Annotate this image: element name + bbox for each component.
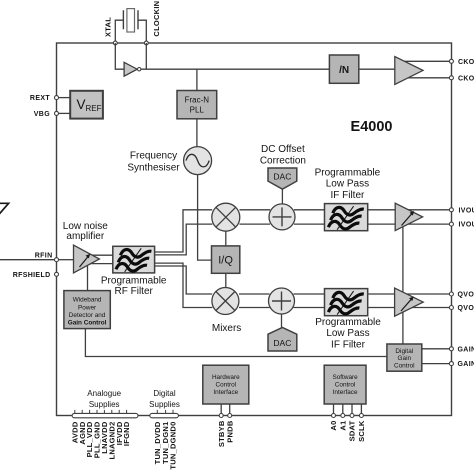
pin QVOUT (449, 292, 474, 299)
svg-text:IVOUT: IVOUT (459, 207, 474, 214)
pin GAIN1 (449, 346, 474, 353)
summer 2 (269, 288, 295, 314)
svg-text:CKOUTB: CKOUTB (458, 75, 474, 82)
wire /N to clock buffer (359, 68, 396, 70)
wire CKOUT upper (402, 60, 450, 62)
svg-text:IF Filter: IF Filter (331, 339, 366, 350)
svg-text:IVOUTB: IVOUTB (459, 222, 474, 229)
pin SCLK (357, 414, 366, 442)
svg-text:REXT: REXT (30, 95, 50, 102)
pin RFSHIELD (13, 272, 59, 279)
wire SCLK stub (360, 404, 362, 414)
svg-text:Supplies: Supplies (149, 400, 180, 409)
digital supply ticks (157, 410, 173, 414)
svg-text:Gain: Gain (398, 355, 412, 362)
svg-text:QVOUTB: QVOUTB (458, 305, 474, 312)
svg-text:PNDB: PNDB (225, 420, 234, 443)
node XTAL junction (113, 41, 117, 45)
wire SDAT stub (351, 404, 353, 414)
wire PLL to synthesiser (196, 119, 198, 147)
pin A1 (338, 414, 347, 431)
svg-text:Digital: Digital (395, 348, 413, 355)
svg-text:Software: Software (332, 374, 358, 381)
wire LNA to RF filter pair (90, 255, 113, 263)
wire clock branch to Frac-N PLL (196, 69, 198, 90)
svg-text:Frequency: Frequency (130, 151, 177, 162)
pin CKOUT (449, 59, 474, 66)
wire RFIN to LNA (59, 259, 74, 261)
wire CKOUT lower (402, 77, 450, 79)
wire A0 stub (333, 404, 335, 414)
wire clock net to /N (141, 68, 330, 70)
wire REXT (57, 97, 71, 99)
svg-text:E4000: E4000 (351, 119, 393, 135)
label DC Offset Correction (260, 144, 306, 166)
RF filter block (113, 246, 155, 273)
analogue supplies connector bracket (72, 413, 138, 417)
wire VBG (57, 112, 71, 114)
wire LNA to detector (87, 266, 89, 291)
wire IF filter2 to amp2 pair (368, 294, 396, 308)
wire summer2 to DAC2 (281, 314, 283, 327)
inverter U1 (124, 62, 141, 76)
wire PNDB stub (229, 404, 231, 414)
svg-text:Low Pass: Low Pass (326, 179, 369, 190)
svg-text:Programmable: Programmable (315, 167, 381, 178)
mixer 2 (212, 288, 239, 315)
pin CKOUTB (449, 75, 474, 82)
svg-text:Power: Power (78, 304, 97, 311)
pin PNDB (225, 414, 234, 443)
svg-text:Control: Control (335, 382, 356, 389)
pin STBYB (217, 414, 226, 448)
wire summer1 to IF filter1 pair (294, 210, 325, 224)
svg-text:Frac-N: Frac-N (185, 96, 210, 105)
wire I/Q to mixer2 (225, 273, 227, 288)
pin A0 (329, 414, 338, 431)
svg-text:SDAT: SDAT (348, 420, 357, 441)
wire IF filter1 to amp1 pair (368, 210, 396, 224)
svg-text:Gain Control: Gain Control (68, 320, 107, 327)
antenna (cropped at left edge) (0, 203, 9, 215)
pin REXT (30, 95, 59, 102)
label Programmable RF Filter (101, 275, 167, 296)
wire filter to mixer2 pair (155, 263, 213, 307)
pin IVOUTB (449, 222, 474, 229)
node CLOCKIN junction (144, 41, 148, 45)
wire CLOCKIN to clock net (145, 43, 147, 69)
svg-text:TUN_DGND0: TUN_DGND0 (169, 422, 178, 470)
svg-text:A1: A1 (338, 421, 347, 431)
wire GAIN1 (422, 348, 450, 350)
svg-text:DAC: DAC (273, 338, 291, 348)
wire crystal right branch (138, 20, 146, 43)
svg-text:IF Filter: IF Filter (330, 190, 365, 201)
svg-text:Programmable: Programmable (101, 275, 167, 286)
wire DAC1 to summer1 (281, 189, 283, 204)
LNA amplifier (74, 245, 100, 273)
svg-text:Interface: Interface (333, 389, 358, 396)
main enclosure box (57, 43, 452, 416)
svg-text:Control: Control (394, 363, 415, 370)
svg-text:Interface: Interface (213, 389, 238, 396)
label Programmable Low Pass IF Filter (Q) (315, 317, 381, 350)
frequency synthesiser oscillator (184, 147, 212, 175)
I/Q phase block (212, 246, 240, 273)
svg-text:Digital: Digital (153, 389, 175, 398)
analogue supply ticks (75, 410, 127, 414)
svg-text:Mixers: Mixers (212, 323, 241, 334)
DAC 1 (268, 168, 297, 189)
digital supplies connector bracket (150, 413, 179, 417)
wire synthesiser to I/Q (198, 175, 212, 261)
IF filter 2 (Q path) (325, 289, 368, 316)
svg-text:amplifier: amplifier (66, 231, 104, 242)
svg-text:DC Offset: DC Offset (261, 144, 305, 155)
wire A1 stub (342, 404, 344, 414)
svg-text:A0: A0 (329, 421, 338, 431)
svg-text:/N: /N (339, 65, 349, 76)
wire crystal left branch (115, 20, 123, 43)
svg-text:Programmable: Programmable (315, 317, 381, 328)
svg-text:Correction: Correction (260, 156, 306, 167)
wire detector to digital gain control (85, 329, 387, 357)
svg-text:VBG: VBG (34, 111, 50, 118)
svg-text:SCLK: SCLK (357, 420, 366, 442)
wire filter to mixer1 pair (155, 210, 213, 255)
wire summer2 to IF filter2 pair (294, 294, 325, 308)
svg-text:Analogue: Analogue (87, 389, 121, 398)
label Analogue Supplies (87, 389, 121, 409)
wire mixer2 to summer2 pair (239, 294, 270, 308)
svg-text:Hardware: Hardware (212, 374, 240, 381)
svg-text:RFSHIELD: RFSHIELD (13, 272, 51, 279)
svg-text:GAIN2: GAIN2 (458, 361, 474, 368)
svg-text:Low noise: Low noise (63, 221, 108, 232)
mixer 1 (212, 203, 240, 231)
pin RFIN (35, 253, 59, 262)
summer 1 (269, 204, 295, 230)
wire GAIN2 (422, 363, 450, 365)
pin SDAT (348, 414, 357, 442)
IF filter 1 (I path) (325, 204, 368, 231)
svg-text:Control: Control (215, 382, 236, 389)
svg-text:Detector and: Detector and (69, 312, 106, 319)
wire I/Q to mixer1 (225, 231, 227, 246)
digital gain control block (387, 344, 422, 371)
wire inverter input (115, 43, 124, 69)
IF amplifier 2 (395, 288, 424, 316)
svg-text:QVOUT: QVOUT (458, 292, 474, 299)
wire RFIN lead-in (0, 259, 55, 261)
Frac-N PLL block (177, 91, 217, 119)
pin IVOUT (449, 207, 474, 214)
svg-text:XTAL: XTAL (103, 17, 112, 37)
wire mixer1 to summer1 pair (240, 210, 271, 224)
svg-text:CLOCKIN: CLOCKIN (152, 1, 161, 37)
label Frequency Synthesiser (127, 151, 180, 174)
svg-text:GAIN1: GAIN1 (458, 346, 474, 353)
label Programmable Low Pass IF Filter (I) (315, 167, 381, 200)
svg-text:Wideband: Wideband (73, 297, 102, 304)
svg-text:Synthesiser: Synthesiser (127, 163, 180, 174)
IF amplifier 1 (395, 203, 422, 230)
svg-text:DAC: DAC (273, 172, 291, 182)
svg-text:RF Filter: RF Filter (115, 286, 154, 297)
label Low noise amplifier (63, 221, 108, 242)
svg-text:CKOUT: CKOUT (458, 59, 474, 66)
clock buffer U2 (395, 57, 423, 85)
svg-text:PLL: PLL (190, 106, 205, 115)
svg-text:Low Pass: Low Pass (326, 328, 369, 339)
wire amp1 outputs to pins (403, 210, 450, 224)
DAC 2 (268, 327, 297, 351)
wire STBYB stub (220, 404, 222, 414)
svg-text:IFGND: IFGND (122, 421, 131, 446)
crystal X1 (123, 9, 138, 32)
hardware control interface block (203, 365, 249, 404)
pin VBG (34, 111, 59, 118)
VREF block (70, 91, 103, 119)
wideband power detector block (64, 291, 110, 329)
pin QVOUTB (449, 305, 474, 312)
label Digital Supplies (149, 389, 180, 409)
svg-text:RFIN: RFIN (35, 253, 53, 260)
pin GAIN2 (449, 361, 474, 368)
wire gain control bus (402, 227, 404, 344)
divider /N (329, 55, 358, 83)
software control interface block (324, 365, 366, 404)
wire amp2 outputs to pins (403, 294, 450, 308)
svg-text:I/Q: I/Q (218, 255, 233, 267)
svg-text:Supplies: Supplies (89, 400, 120, 409)
